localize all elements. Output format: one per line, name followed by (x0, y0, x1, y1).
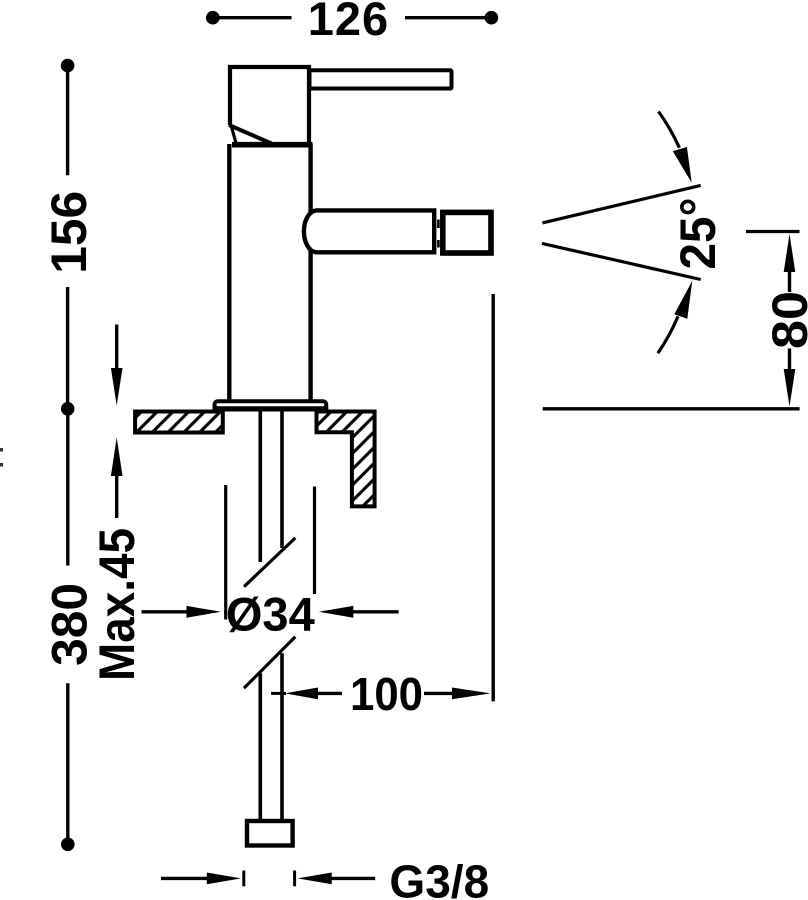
dia34 left extension line (224, 485, 227, 620)
dim G3/8 left tick (242, 871, 245, 887)
shared dot 156/380 (61, 402, 75, 416)
dimension 156 top dot (61, 59, 75, 73)
threaded shank left line upper (258, 410, 262, 562)
dimension 156 upper line (66, 66, 69, 176)
dim 100 right arrow (452, 688, 491, 700)
break slash lower (244, 637, 295, 688)
dia34 right extension line (313, 487, 316, 595)
spout (304, 210, 434, 252)
dimension Max.45 up arrow (111, 438, 123, 477)
svg-text:Ø34: Ø34 (226, 588, 315, 641)
spout gap upper tick (437, 220, 440, 229)
dim 100 extension line (492, 294, 495, 701)
dia34 left dim line (142, 610, 189, 613)
dim G3/8 left arrow (207, 873, 241, 885)
dimension 380 upper line (66, 409, 69, 566)
dimension 126 left line (213, 16, 292, 19)
spout gap lower tick (437, 240, 440, 248)
dim 80 top tick (746, 230, 800, 233)
angle upper arrowhead (673, 147, 692, 183)
inlet nut (247, 821, 293, 846)
dim 100 right line (424, 692, 453, 695)
dimension 156 lower line (66, 287, 69, 409)
svg-text:100: 100 (350, 668, 423, 720)
dim 80 up arrow (784, 234, 796, 272)
dimension 380 bottom dot (61, 838, 75, 852)
angle lower arc (658, 316, 678, 353)
dim 80 down arrow (784, 369, 796, 407)
threaded shank right line lower (280, 653, 284, 819)
break slash upper (244, 538, 295, 587)
deck surface extension line (543, 407, 800, 410)
dim 100 left line (317, 692, 342, 695)
dim G3/8 right arrow (298, 873, 332, 885)
dimension Max.45 lower line (115, 475, 118, 518)
svg-text:25°: 25° (670, 198, 726, 270)
dimension 380 lower line (66, 683, 69, 844)
dia34 right arrow (319, 606, 354, 618)
stray mark upper (0, 448, 3, 452)
angle upper ray (542, 185, 700, 223)
dia34 right dim line (353, 610, 399, 613)
deck right section (hatched L) (317, 412, 375, 507)
dimension 126 right dot (485, 11, 499, 25)
threaded shank left line lower (258, 673, 262, 819)
base plate (215, 401, 327, 408)
angle lower ray (542, 243, 701, 279)
handle cap bottom thick line (232, 142, 313, 148)
dimension 126 left dot (206, 11, 220, 25)
svg-text:80: 80 (762, 291, 808, 349)
dimension Max.45 down arrow (111, 368, 123, 406)
dimension Max.45 upper line (115, 325, 118, 371)
dim 80 upper line (788, 271, 791, 292)
base plate seat line (213, 407, 329, 412)
svg-text:156: 156 (41, 191, 97, 274)
handle cap left wedge edge (231, 125, 236, 143)
dim G3/8 right tick (293, 871, 296, 887)
dimension 126 right line (405, 16, 491, 19)
handle cap diagonal (229, 125, 272, 144)
dim 100 left arrow (285, 688, 318, 700)
dim G3/8 right line (332, 877, 376, 880)
dim 80 lower line (788, 348, 791, 370)
dia34 left arrow (187, 606, 222, 618)
dim G3/8 left line (161, 877, 208, 880)
angle lower arrowhead (674, 281, 692, 319)
handle lever bar (310, 70, 452, 88)
handle cap outline (230, 67, 309, 144)
dim 100 left stub (271, 692, 286, 695)
spout tip (aerator) (443, 212, 491, 253)
faucet body left edge (227, 144, 231, 401)
threaded shank right line upper (280, 410, 284, 548)
stray mark lower (0, 463, 3, 467)
angle upper arc (659, 112, 680, 148)
svg-text:G3/8: G3/8 (389, 856, 489, 900)
faucet body right edge (308, 144, 312, 401)
svg-text:126: 126 (308, 0, 389, 45)
deck left section (hatched) (135, 412, 223, 433)
svg-text:Max.45: Max.45 (89, 528, 145, 681)
